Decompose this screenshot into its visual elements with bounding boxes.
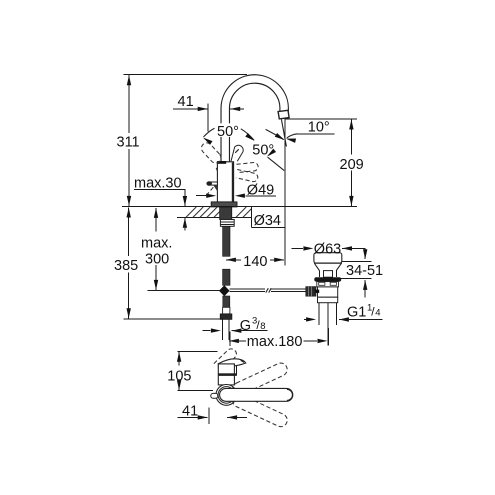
svg-text:10°: 10° (308, 120, 330, 136)
dashed lever positions right (236, 163, 258, 182)
solid spout tip (218, 359, 245, 367)
countertop section (122, 206, 357, 217)
gasket (314, 277, 341, 281)
threaded rod lower part (223, 269, 230, 285)
white collar (223, 307, 230, 314)
svg-text:300: 300 (145, 252, 169, 268)
svg-text:140: 140 (243, 254, 267, 270)
svg-text:50°: 50° (217, 124, 239, 140)
dim 41 bottom (177, 403, 247, 424)
solid lever (220, 388, 293, 401)
tailpipe (318, 303, 320, 326)
water stream 10deg tilted line (281, 119, 286, 146)
plan body (218, 364, 234, 385)
bottom band (318, 297, 338, 303)
svg-text:G1: G1 (347, 304, 366, 320)
left knob (211, 393, 218, 398)
dim 50deg upper (202, 123, 256, 144)
small dash fragment left of body (216, 168, 217, 171)
counter bottom line (177, 217, 252, 219)
horizontal pop-up linkage rod (147, 288, 305, 292)
svg-text:max.180: max.180 (247, 334, 303, 350)
dim max.300 (141, 208, 172, 290)
svg-text:50°: 50° (252, 143, 274, 159)
dim max.180 (229, 328, 329, 350)
solid petal handle upper-right (231, 145, 243, 161)
dashed petal handle upper-left (201, 143, 220, 163)
dim 140 (226, 254, 284, 270)
svg-text:8: 8 (260, 321, 265, 332)
taper (314, 263, 319, 270)
neck (318, 271, 320, 278)
dim G3/8 (202, 315, 267, 334)
svg-text:Ø34: Ø34 (254, 213, 281, 229)
bonnet circle (216, 385, 237, 406)
dim 41 top (173, 94, 244, 132)
svg-text:311: 311 (117, 134, 140, 150)
center knob box (324, 271, 333, 278)
dim G1 1/4 (304, 302, 383, 321)
svg-text:G: G (240, 318, 251, 334)
svg-text:34-51: 34-51 (346, 263, 383, 279)
dim Ø49 (196, 182, 276, 198)
handle lever left (206, 181, 217, 191)
hatching (186, 207, 251, 217)
svg-text:4: 4 (375, 308, 380, 319)
POP-UP WASTE ASSEMBLY (306, 253, 342, 346)
svg-text:max.: max. (141, 236, 172, 252)
plug head (314, 253, 342, 264)
dashed spout swung position (214, 349, 237, 371)
knurled coupler (306, 287, 316, 297)
dim 209 (285, 119, 364, 206)
G3/8 connector pipe (222, 319, 229, 340)
tailpipe axis (327, 303, 329, 346)
aerator at spout outlet (278, 110, 289, 119)
threaded rod upper part (223, 226, 230, 256)
rod break marks (266, 288, 269, 292)
ball joint (219, 285, 230, 296)
mounting nut below counter (220, 220, 234, 227)
dashed lever up position (231, 361, 290, 429)
dim 50deg lower (252, 129, 285, 170)
dim 105 (167, 351, 217, 390)
svg-text:Ø63: Ø63 (314, 241, 341, 257)
dim Ø63 (291, 241, 365, 257)
clamp row (317, 282, 339, 287)
pop-up rod vertical below ball (223, 296, 230, 307)
base flange (211, 202, 237, 207)
spout gooseneck tube (225, 79, 284, 162)
dim 385 (114, 207, 224, 318)
svg-text:385: 385 (114, 258, 138, 274)
svg-text:105: 105 (167, 368, 191, 384)
threaded shank through counter (220, 207, 232, 220)
hose nut (220, 314, 232, 320)
svg-text:41: 41 (178, 94, 194, 110)
dim 10deg (285, 120, 334, 143)
dim 34-51 (340, 248, 383, 297)
dim max.30 (134, 175, 187, 230)
counter top line (122, 205, 357, 207)
faucet body (217, 162, 233, 202)
water stream vertical extension line (284, 119, 286, 265)
dim 311 (117, 75, 248, 206)
waste body (318, 287, 338, 297)
dim Ø34 (hole in counter) (252, 206, 285, 228)
svg-text:209: 209 (340, 157, 364, 173)
PLAN VIEW (bottom) (211, 349, 293, 429)
